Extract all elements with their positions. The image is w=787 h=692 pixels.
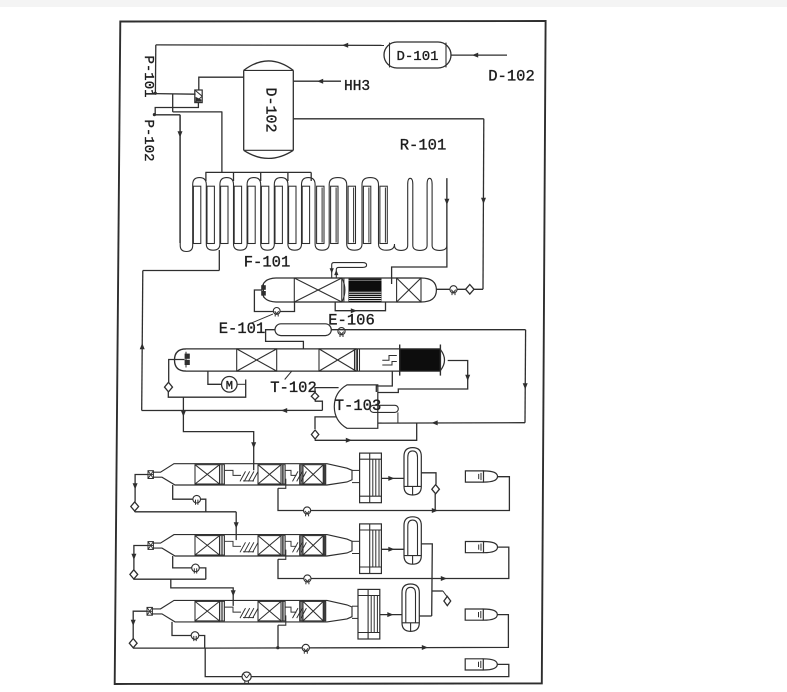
- svg-text:E-101: E-101: [219, 320, 266, 338]
- T-103 side nozzle capsule: [370, 405, 398, 412]
- diamond row2 left: [130, 570, 138, 579]
- pump row2: [192, 564, 200, 572]
- valve on E-106 outlet: [338, 328, 345, 335]
- wire row3 return loop to bullet3: [205, 615, 509, 650]
- diamond on T-103 bottom loop: [311, 430, 318, 439]
- wire T-103 bottom loop: [315, 417, 417, 443]
- vessel internal bed 1: [195, 536, 220, 555]
- divider 4: [323, 601, 326, 621]
- valve on row2 return: [304, 575, 311, 582]
- divider 1: [220, 465, 225, 484]
- wire D-102 bottoms to R-101 downcomer: [293, 119, 486, 289]
- furnace coil F-101 tube rectangles: [193, 186, 387, 243]
- vessel internal bed 2: [258, 465, 281, 484]
- wire column1 to U-tube1: [381, 476, 404, 481]
- valve on bottom header: [242, 672, 251, 683]
- wire T-102 outlet loop to T-103: [378, 361, 470, 393]
- node P-101 junction dot: [154, 92, 157, 95]
- reactor T-102 shell: [175, 349, 441, 371]
- diamond on E-101 outlet: [466, 285, 474, 295]
- furnace coil F-101 serpentine: [180, 115, 447, 252]
- svg-text:M: M: [226, 379, 233, 393]
- pump row3: [191, 632, 199, 640]
- reactor train vessel: [147, 600, 352, 622]
- wire D-102 inlet to D-101: [451, 53, 507, 58]
- valve FV1 on D-102 feed: [195, 90, 202, 103]
- wire column3 to U-tube3: [380, 612, 402, 617]
- diamond vent row2 link: [444, 596, 451, 605]
- divider 1: [220, 601, 225, 621]
- diamond row3 left: [129, 639, 137, 648]
- wire row3 left suction with diamond: [131, 611, 205, 648]
- wire T-102 bottom drain to T-103: [376, 371, 392, 392]
- wire valve to D-102 top: [199, 77, 244, 90]
- vessel internal bed 3: [303, 536, 323, 555]
- wire drop A into F-101 coil: [178, 115, 183, 243]
- svg-text:D-101: D-101: [396, 49, 438, 65]
- pump row1: [193, 495, 201, 503]
- internal distributor 2: [285, 470, 306, 481]
- wire E-101 outlet with pump and diamond: [436, 288, 483, 290]
- internal outlet pipe jog: [278, 615, 286, 625]
- wire drop B into F-101 header: [221, 112, 223, 172]
- vessel internal bed 3: [303, 601, 323, 621]
- internal distributor 2: [285, 541, 306, 552]
- internal outlet pipe jog: [278, 550, 286, 560]
- exchanger E-101 body and internals: [261, 278, 436, 302]
- wire P-102 outlet: [154, 114, 180, 116]
- divider 2: [281, 536, 285, 555]
- vessel internal bed 3: [303, 465, 323, 484]
- node P-102 junction dot: [153, 113, 156, 116]
- drawing border frame: [115, 21, 546, 684]
- leader line E-101: [250, 314, 273, 324]
- divider 4: [323, 465, 326, 484]
- vessel internal bed 2: [258, 601, 281, 621]
- wire U-tube1 outlet to diamond: [421, 473, 436, 511]
- vent stub on E-101 top: [330, 263, 367, 278]
- page top margin: [0, 0, 787, 7]
- plate exchanger column: [358, 589, 380, 639]
- svg-text:D-102: D-102: [488, 68, 535, 86]
- U-tube exchanger: [404, 517, 421, 564]
- wire valve drain to P-102: [155, 103, 198, 115]
- divider 4: [323, 536, 326, 555]
- svg-text:P-101: P-101: [140, 55, 156, 97]
- wire column2 to U-tube2: [381, 547, 404, 552]
- divider 2: [281, 601, 285, 621]
- wire return line into T-103: [378, 420, 525, 425]
- svg-text:F-101: F-101: [244, 254, 291, 272]
- pump on E-101 outlet: [450, 286, 457, 293]
- row1 outlet forks to column: [352, 470, 360, 482]
- wire branch down to reactor row 1: [181, 397, 256, 470]
- wire E-106 inlet from left: [266, 330, 304, 349]
- wire T-103 nozzle drop: [397, 412, 399, 423]
- divider 3: [300, 601, 303, 621]
- diamond under U-tube1: [432, 485, 440, 494]
- pump loop row3: [172, 622, 205, 648]
- wire F-101 outlet (right) to E-101: [392, 178, 450, 284]
- wire row3 outlet riser: [277, 625, 279, 648]
- wire U-tube2 outlet long link down: [421, 544, 443, 616]
- wire row1 return loop to bullet1: [278, 477, 509, 513]
- vessel T-103: [334, 385, 381, 428]
- vessel internal bed 2: [258, 536, 281, 555]
- vessel internal bed 1: [195, 465, 220, 484]
- exchanger E-101 shell: [262, 278, 294, 302]
- svg-text:R-101: R-101: [400, 137, 447, 155]
- row2 outlet forks to column: [352, 541, 360, 553]
- vessel internal bed 1: [195, 601, 220, 621]
- bullet flow element: [465, 609, 497, 620]
- wire row2 return loop to bullet2: [278, 547, 509, 581]
- wire E-101 bottom recirculation loop: [335, 302, 385, 313]
- svg-text:HH3: HH3: [344, 79, 370, 95]
- wire U-tube3 outlet to link: [419, 615, 431, 617]
- wire D-101 outlet to P-101 header: [155, 43, 384, 94]
- bullet flow element: [465, 542, 497, 553]
- exchanger E-106 capsule: [275, 324, 331, 336]
- bullet flow element: [465, 659, 497, 670]
- valve on row1 return: [304, 507, 311, 514]
- wire P-101 jog down: [173, 94, 223, 112]
- plate exchanger column: [360, 453, 382, 503]
- motor pump M under T-102: [208, 371, 246, 393]
- divider 2: [281, 465, 285, 484]
- bullet flow element: [465, 471, 497, 482]
- svg-text:T-102: T-102: [270, 379, 317, 397]
- internal outlet pipe jog: [278, 479, 286, 489]
- wire E-106 outlet to T-103 return: [331, 330, 527, 423]
- valve on E-101 loop: [273, 308, 280, 315]
- svg-text:D-102: D-102: [262, 87, 279, 132]
- wire P-101 suction: [155, 93, 195, 96]
- reactor train vessel: [148, 464, 352, 485]
- pump loop row2: [173, 556, 206, 579]
- svg-text:P-102: P-102: [140, 119, 156, 161]
- row3 outlet forks to column: [352, 606, 358, 618]
- divider 3: [300, 465, 303, 484]
- diamond row1 left: [131, 502, 139, 511]
- T-102 internals: [185, 345, 445, 376]
- divider 1: [220, 536, 225, 555]
- plate exchanger column: [360, 524, 382, 574]
- wire row2 left suction with diamond: [131, 546, 235, 606]
- wire F-101 outlet (left) down to T-103 header: [140, 250, 220, 411]
- U-tube exchanger: [404, 448, 421, 495]
- svg-text:E-106: E-106: [328, 311, 375, 329]
- wire F-101 outlet header to T-103: [142, 388, 339, 413]
- pump loop row1: [173, 485, 206, 512]
- internal distributor 1: [225, 470, 259, 481]
- wire T-102 left loop with diamond: [168, 360, 245, 398]
- vessel D-102: [244, 61, 294, 158]
- wire row1 left suction with diamond: [133, 475, 239, 541]
- internal distributor 1: [225, 541, 259, 552]
- wire HH3 feed into D-102: [293, 79, 341, 84]
- leader line T-102: [285, 371, 292, 380]
- divider 3: [300, 536, 303, 555]
- reactor train vessel: [148, 535, 352, 556]
- internal distributor 2: [285, 607, 306, 618]
- diamond on T-102 left loop: [165, 382, 173, 392]
- wire E-101 left loop with valve: [254, 290, 294, 312]
- furnace coil F-101 header: [205, 172, 311, 181]
- U-tube exchanger: [402, 584, 419, 631]
- diamond on T-103 feed: [311, 392, 318, 400]
- vessel D-101: [384, 42, 451, 68]
- valve on row3 return: [302, 644, 309, 651]
- wire bottom header to bullet4: [205, 648, 509, 677]
- internal distributor 1: [225, 607, 259, 618]
